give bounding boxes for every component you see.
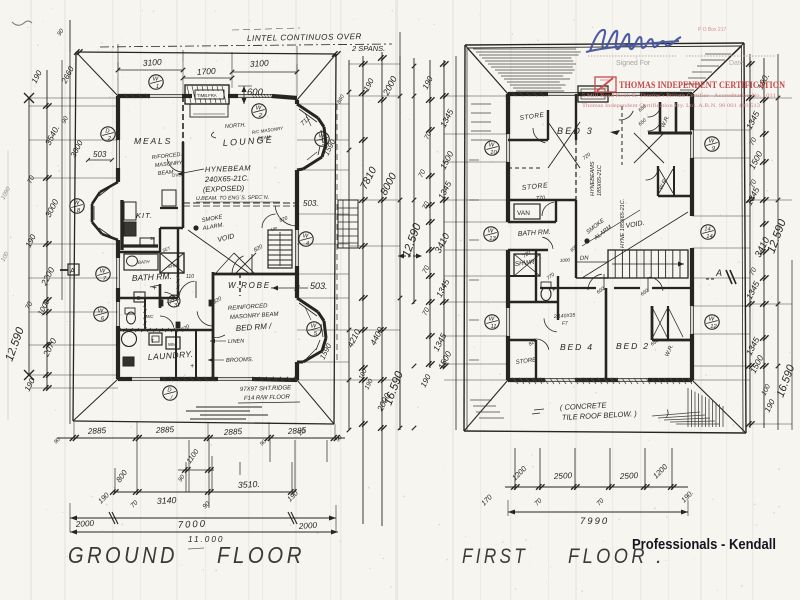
linen note (210, 338, 244, 345)
first floor void diagonals (582, 210, 688, 278)
first floor roof shading lines (473, 49, 731, 91)
svg-text:HYNEBEAMS: HYNEBEAMS (590, 161, 596, 196)
svg-text:D: D (171, 296, 175, 302)
smoke alarm note ground floor (193, 214, 224, 232)
first floor bottom-right closets (652, 306, 692, 340)
svg-text:W: W (489, 143, 495, 149)
svg-text:HYNE 185X65-21C.: HYNE 185X65-21C. (620, 199, 626, 248)
svg-text:W: W (153, 77, 159, 83)
svg-text:(EXPOSED): (EXPOSED) (203, 184, 245, 194)
svg-text:BED 2: BED 2 (616, 341, 650, 351)
svg-text:A: A (70, 266, 75, 275)
svg-text:14: 14 (704, 227, 710, 233)
svg-text:FLOOR: FLOOR (217, 542, 305, 568)
ground floor bottom drop lines (115, 440, 327, 508)
meter box ladder symbol right of wall (338, 200, 358, 248)
circled label W4 (299, 232, 313, 246)
svg-text:12: 12 (710, 324, 717, 330)
svg-text:7000: 7000 (178, 518, 208, 531)
svg-text:): ) (665, 408, 669, 418)
svg-text:503.: 503. (303, 199, 319, 208)
wardrobe X left of stairs (215, 253, 256, 275)
svg-text:U.BEAM. TO ENG`S. SPEC`N.: U.BEAM. TO ENG`S. SPEC`N. (196, 195, 269, 202)
first floor bed3 wardrobe diagonals (548, 122, 580, 168)
ground floor door arcs (160, 156, 295, 330)
ground floor left dimension lines (24, 20, 118, 424)
circled label W1 (149, 75, 163, 89)
svg-text:FIRST: FIRST (462, 545, 528, 568)
svg-text:VAN: VAN (517, 210, 530, 217)
kitchen bench and fixtures (122, 190, 178, 250)
svg-text:2000: 2000 (75, 519, 95, 529)
first floor interior spine wall (575, 94, 577, 278)
503 label right upper (303, 199, 319, 208)
svg-text:14: 14 (706, 234, 712, 240)
circled label 14-14 (701, 225, 715, 239)
timber frame window box top wall (185, 85, 229, 117)
laundry wall hatch (120, 276, 180, 332)
ground floor overall dimension 11000 (70, 530, 338, 545)
svg-text:BED 3: BED 3 (557, 126, 594, 136)
svg-text:Thomas Independent Certificati: Thomas Independent Certification Pty. Lt… (582, 102, 761, 109)
svg-text:2 SPANS.: 2 SPANS. (351, 44, 385, 53)
svg-text:11: 11 (490, 324, 496, 330)
503 label top (86, 150, 114, 162)
svg-text:2885: 2885 (287, 426, 307, 436)
svg-text:3100: 3100 (249, 58, 269, 69)
first floor bottom dimension lines (479, 448, 695, 507)
ground floor wall hatching (124, 94, 298, 381)
svg-text:LINEN: LINEN (228, 338, 244, 345)
first floor door arcs (533, 111, 663, 350)
svg-text:T: T (151, 339, 154, 345)
reinforced masonry bed rm note (213, 303, 279, 337)
svg-text:110: 110 (186, 274, 194, 280)
svg-text:7990: 7990 (580, 516, 609, 527)
blue signature (586, 30, 681, 52)
extra scan streaks (140, 0, 727, 600)
svg-text:503: 503 (93, 150, 107, 159)
svg-text:5 Mill Road Keith R. Thomas -: 5 Mill Road Keith R. Thomas - Private Ce… (582, 92, 777, 99)
circled label W2 (252, 104, 266, 118)
svg-text:THOMAS INDEPENDENT CERTIFICATI: THOMAS INDEPENDENT CERTIFICATION (619, 80, 785, 91)
stamp logo box (595, 77, 616, 92)
first floor top window box (578, 86, 608, 102)
svg-text:WC: WC (146, 314, 154, 319)
svg-text:W.ROBE,: W.ROBE, (228, 281, 275, 290)
bath fixtures (124, 253, 184, 324)
right dimension numbers ground floor (297, 75, 406, 438)
first floor top-right closet WR (610, 102, 692, 165)
first floor exterior walls (507, 93, 694, 382)
svg-text:W: W (709, 139, 715, 145)
lintel dash-dot line over ground floor (100, 28, 392, 53)
first floor 650 door labels (522, 152, 660, 348)
svg-text:185X65-21C: 185X65-21C (597, 165, 603, 196)
svg-text:W: W (256, 106, 262, 112)
first floor room labels (515, 112, 649, 366)
ground floor eave outline (73, 52, 336, 424)
left margin faint marks (0, 150, 12, 420)
section marker arrow between plans (398, 254, 422, 259)
circled label W11 (485, 315, 499, 329)
left dimension numbers ground floor (4, 64, 86, 392)
svg-text:600: 600 (247, 87, 264, 98)
circled label W10 (485, 141, 499, 155)
ground floor exterior walls (117, 94, 299, 380)
svg-text:2885: 2885 (155, 425, 175, 435)
ground floor bottom dimension row 2885 (53, 422, 345, 447)
svg-text:W: W (311, 324, 317, 330)
first floor shower and wc (514, 254, 556, 301)
circled label D3 (168, 295, 180, 307)
svg-text:Signed For: Signed For (616, 60, 651, 67)
first floor rotated beam notes (569, 161, 675, 358)
820 door labels ground floor (146, 236, 265, 334)
svg-text:Professionals - Kendall: Professionals - Kendall (632, 537, 776, 553)
ground floor title (68, 542, 305, 568)
svg-text:P O Box 217: P O Box 217 (698, 27, 726, 33)
interior wall wrobe-bedrm (213, 274, 297, 296)
svg-text:W: W (98, 309, 104, 315)
first floor apron hatch right corner (652, 388, 723, 427)
svg-text:13: 13 (489, 236, 496, 242)
svg-text:3140: 3140 (157, 495, 177, 506)
svg-text:+: + (152, 283, 157, 292)
ground floor stairs (262, 214, 292, 268)
svg-text:2885: 2885 (87, 426, 107, 436)
first floor right dimension numbers (744, 72, 798, 414)
first floor apron hatch left corner (470, 400, 504, 418)
svg-text:MEALS: MEALS (134, 136, 172, 146)
ground floor bottom small dimensions (96, 447, 300, 510)
svg-text:2000: 2000 (298, 521, 318, 531)
interior walls kitchen-bath block (118, 228, 213, 379)
circled label W6 (94, 307, 108, 321)
svg-text:W: W (489, 317, 495, 323)
svg-text:GROUND: GROUND (68, 542, 178, 568)
brooms note (208, 357, 253, 364)
first floor left dimension numbers (401, 74, 456, 388)
svg-text:2500: 2500 (553, 471, 573, 481)
svg-text:D: D (167, 388, 171, 394)
bath rm door arc 770 (164, 292, 179, 308)
section marker A right (706, 268, 736, 284)
svg-text:TIMB.FRA: TIMB.FRA (197, 93, 217, 98)
svg-text:W: W (303, 234, 309, 240)
stamp signed for line (588, 56, 776, 67)
first floor roof corner diagonals (464, 43, 746, 433)
first floor van cupboard (514, 204, 540, 219)
svg-text:DN: DN (580, 255, 590, 262)
first floor bottom apron concrete note (532, 401, 669, 422)
circled label D1 (163, 386, 177, 400)
svg-text:2885: 2885 (223, 427, 243, 437)
svg-text:D: D (105, 129, 109, 135)
svg-text:1: 1 (156, 84, 159, 90)
top-left scan mark (12, 21, 32, 25)
ground floor kitchen bay window (92, 182, 118, 240)
ground floor corner diagonals (73, 52, 336, 424)
circled label W9 (705, 137, 719, 151)
svg-text:BATH: BATH (138, 259, 151, 265)
svg-text:3510.: 3510. (238, 479, 261, 490)
ground floor bottom apron ridge note (186, 385, 300, 419)
svg-text:770: 770 (536, 195, 547, 202)
ground floor bed rm bay window (297, 298, 326, 362)
laundry fixtures (122, 332, 195, 371)
svg-text:503.: 503. (310, 281, 328, 291)
ground floor right dimension lines (297, 52, 402, 526)
svg-text:BED 4: BED 4 (560, 342, 594, 352)
circled label D2 (101, 127, 115, 141)
first floor outer roof outline (464, 43, 746, 433)
svg-text:2500: 2500 (619, 471, 639, 481)
svg-text:WM: WM (168, 342, 176, 347)
first floor overall dimension 7990 (508, 500, 688, 527)
first floor title (462, 545, 662, 568)
first floor mid-right closet (646, 166, 692, 196)
ground floor top dimensions (116, 57, 300, 104)
svg-text:Date: Date (729, 60, 744, 67)
interior wall meals-lounge (160, 96, 183, 228)
503 label right mid (272, 281, 328, 291)
svg-text:1000: 1000 (560, 257, 571, 263)
svg-text:10: 10 (490, 150, 497, 156)
svg-text:W: W (74, 201, 80, 207)
svg-text:240X65-21C.: 240X65-21C. (204, 173, 249, 184)
svg-text:W: W (319, 134, 325, 140)
svg-text:3100: 3100 (142, 57, 162, 68)
circled label W8 (70, 199, 84, 213)
first floor bottom wall hatch band (514, 378, 692, 384)
rforced masonry beam note (152, 152, 186, 178)
ground floor lounge bay window (297, 104, 326, 170)
section marker A left (60, 264, 79, 275)
svg-text:HYNEBEAM: HYNEBEAM (205, 163, 252, 174)
first floor stairs (560, 250, 688, 278)
svg-text:BROOMS.: BROOMS. (226, 357, 254, 364)
circled label W7 (96, 267, 110, 281)
circled label W5 (307, 322, 321, 336)
svg-text:W: W (709, 317, 715, 323)
svg-text:+: + (552, 288, 556, 294)
first floor left dimension lines (400, 32, 508, 430)
svg-text:W: W (100, 269, 106, 275)
ground floor bottom dimension row totals (70, 503, 336, 532)
svg-text:KIT.: KIT. (136, 211, 153, 220)
svg-text:BATH RM.: BATH RM. (132, 271, 172, 283)
first floor interior walls left rooms (508, 110, 576, 380)
svg-text:1700: 1700 (196, 66, 216, 77)
svg-text:50: 50 (150, 236, 155, 241)
eave corner ticks ground floor (57, 20, 341, 72)
circled label W12 (705, 315, 719, 329)
svg-text:+: + (190, 363, 194, 370)
first floor eave side ticks (469, 104, 491, 360)
circled label W13 (484, 227, 498, 241)
svg-text:F7: F7 (562, 321, 568, 327)
hyne beam note ground floor (178, 163, 280, 202)
exposed beam dashed line lounge (183, 203, 297, 206)
svg-text:W: W (488, 229, 494, 235)
circled label W3 (315, 132, 329, 146)
void diagonal ground floor (188, 230, 250, 274)
svg-text:A: A (715, 268, 722, 278)
first floor bed divider wall (540, 278, 692, 380)
first floor wall hatching (512, 92, 692, 382)
north arrow note (211, 123, 284, 141)
first floor right dimension lines (692, 54, 792, 430)
